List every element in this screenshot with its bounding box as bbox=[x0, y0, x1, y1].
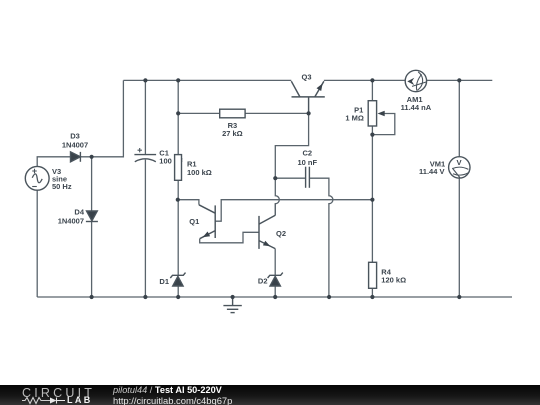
transistor Q1 bbox=[199, 205, 215, 239]
wire Q2 collector vertical bbox=[274, 204, 276, 216]
CircuitLab logo bbox=[22, 386, 95, 400]
junction R3 left / R1 column bbox=[176, 111, 180, 115]
zener diode D1 bbox=[170, 273, 185, 286]
svg-text:11.44 nA: 11.44 nA bbox=[401, 103, 432, 112]
wire R3 right to Q3 base junction bbox=[245, 112, 309, 114]
arrow P1 wiper bbox=[378, 111, 385, 117]
junction C1 on ground rail bbox=[143, 295, 147, 299]
capacitor C1 bbox=[134, 148, 156, 162]
svg-text:120 kΩ: 120 kΩ bbox=[381, 276, 406, 285]
junction C2 left / Q2 collector bbox=[273, 176, 277, 180]
arrow Q3 emitter bbox=[317, 84, 323, 92]
wire VM1 top branch bbox=[458, 80, 460, 156]
junction R3 right / Q3 base bbox=[307, 111, 311, 115]
diode D4 1N4007 bbox=[86, 211, 98, 222]
wire D1 to ground rail bbox=[177, 286, 179, 297]
svg-text:C2: C2 bbox=[303, 148, 313, 157]
wire R1 bottom to D1 bbox=[177, 180, 179, 275]
logo diode bbox=[50, 397, 57, 403]
transistor Q3 bbox=[291, 81, 325, 113]
potentiometer P1 bbox=[368, 101, 376, 126]
junction P1 top on rail bbox=[370, 78, 374, 82]
logo resistor zigzag bbox=[22, 397, 50, 403]
ground bbox=[223, 297, 241, 313]
junction D4 on ground rail bbox=[90, 295, 94, 299]
svg-text:1N4007: 1N4007 bbox=[62, 141, 88, 150]
svg-text:100 kΩ: 100 kΩ bbox=[187, 168, 212, 177]
footer title text bbox=[113, 385, 222, 395]
junction D1 on ground rail bbox=[176, 295, 180, 299]
svg-text:50 Hz: 50 Hz bbox=[52, 182, 72, 191]
footer url bbox=[113, 395, 232, 405]
wire Q2 emitter down to D2 bbox=[274, 249, 276, 276]
wire C2 left bbox=[275, 177, 305, 179]
junction ground symbol on rail bbox=[231, 295, 235, 299]
wire R3 left bbox=[178, 112, 220, 114]
svg-text:11.44 V: 11.44 V bbox=[419, 167, 444, 176]
svg-text:D1: D1 bbox=[159, 277, 169, 286]
junction P1 bottom / Q1 base wire / R4 top bbox=[370, 198, 374, 202]
wire Q1 emitter to Q2 base bbox=[200, 232, 259, 243]
voltmeter VM1 bbox=[449, 157, 470, 178]
junction P1 bottom / wiper bbox=[370, 133, 374, 137]
wire V3 top to D3 bbox=[37, 157, 70, 167]
svg-text:1 MΩ: 1 MΩ bbox=[345, 114, 364, 123]
wire C2 right down to ground with hop bbox=[310, 178, 333, 297]
arrow Q2 emitter bbox=[263, 241, 270, 247]
resistor R4 bbox=[369, 262, 377, 288]
wire D3 cathode to riser corner bbox=[81, 80, 124, 156]
wire P1 bottom to node bbox=[371, 126, 373, 200]
resistor R3 bbox=[220, 109, 245, 118]
wire D2 to ground rail bbox=[274, 286, 276, 297]
wire P1 top bbox=[371, 80, 373, 100]
junction R4 on ground rail bbox=[370, 295, 374, 299]
svg-text:10 nF: 10 nF bbox=[298, 158, 318, 167]
svg-text:D2: D2 bbox=[258, 276, 268, 285]
svg-text:Q3: Q3 bbox=[301, 73, 311, 82]
wire node to R4 bbox=[371, 200, 373, 263]
wire R1 column top bbox=[177, 80, 179, 154]
wire D4 bottom bbox=[91, 222, 93, 298]
svg-text:Q2: Q2 bbox=[276, 229, 286, 238]
wire D4 top branch bbox=[91, 157, 93, 211]
wire Q1 base riser and long horizontal to P1/R4 node bbox=[215, 200, 372, 222]
junction R1 column on supply rail bbox=[176, 78, 180, 82]
wire P1 wiper loop bbox=[372, 114, 394, 135]
zener diode D2 bbox=[268, 273, 283, 286]
wire AM1 right bbox=[427, 79, 493, 81]
junction D3 cathode / D4 anode bbox=[90, 155, 94, 159]
capacitor C2 bbox=[306, 167, 310, 188]
resistor R1 bbox=[175, 155, 182, 181]
voltage source V3 bbox=[25, 166, 49, 190]
ammeter AM1 bbox=[405, 70, 426, 91]
wire top rail left segment bbox=[123, 79, 291, 81]
footer bar bbox=[0, 385, 540, 405]
junction VM1 top on rail bbox=[457, 78, 461, 82]
wire V3 bottom bbox=[36, 190, 38, 297]
svg-text:27 kΩ: 27 kΩ bbox=[222, 129, 243, 138]
junction D2 on ground rail bbox=[273, 295, 277, 299]
arrow Q1 emitter bbox=[203, 232, 211, 238]
wire R4 bottom bbox=[371, 288, 373, 297]
wire C1 bottom bbox=[144, 160, 146, 297]
junction C1 top on supply rail bbox=[143, 78, 147, 82]
svg-text:D3: D3 bbox=[70, 132, 80, 141]
wire C1 top bbox=[144, 80, 146, 154]
wire VM1 bottom bbox=[458, 178, 460, 297]
svg-text:D4: D4 bbox=[74, 207, 84, 216]
transistor Q2 bbox=[259, 215, 275, 249]
wire ground rail bbox=[37, 296, 512, 298]
junction Q1 collector / R1 bottom bbox=[176, 198, 180, 202]
junction VM1 bottom on ground rail bbox=[457, 295, 461, 299]
svg-text:1N4007: 1N4007 bbox=[58, 217, 84, 226]
wire top rail right segment Q3 emitter to AM1 bbox=[324, 79, 405, 81]
junction C2 right on ground rail bbox=[327, 295, 331, 299]
diode D3 1N4007 bbox=[71, 152, 81, 162]
wire Q1 collector from R1 column bbox=[178, 200, 199, 205]
svg-text:Q1: Q1 bbox=[189, 217, 199, 226]
wire Q3 base jog down to C2/Q2 node with hop bbox=[275, 113, 308, 215]
